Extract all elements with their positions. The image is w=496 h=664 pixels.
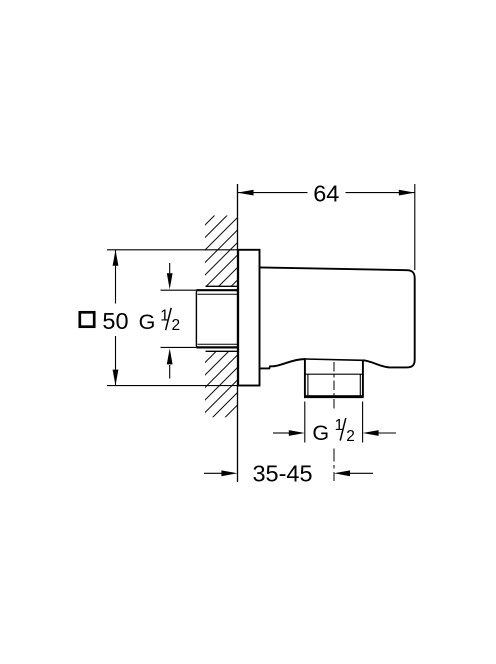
body outline	[260, 267, 415, 396]
dimension 50 extension top	[107, 249, 238, 251]
dimension 50 line top segment	[115, 250, 117, 304]
outlet thread minor line left	[307, 374, 309, 395]
outlet dim extension left	[304, 402, 306, 443]
inlet thread body	[196, 290, 237, 347]
outlet centerline lower	[333, 449, 335, 482]
svg-text:2: 2	[346, 428, 355, 445]
wall hole edge top	[206, 285, 238, 287]
inlet thread dim arrow down	[167, 263, 173, 289]
dimension 64 arrow right	[399, 190, 415, 196]
dimension 50 line bottom segment	[115, 336, 117, 386]
outlet centerline upper	[333, 362, 335, 411]
dimension 50 arrow down	[113, 370, 119, 386]
wall face line	[237, 184, 239, 482]
dimension 50 arrow up	[113, 250, 119, 266]
wall hatching	[193, 170, 260, 462]
outlet thread minor line right	[359, 374, 361, 395]
outlet dim extension right	[362, 402, 364, 443]
dimension 64 line left segment	[238, 192, 308, 194]
label G 1/2 left	[139, 307, 181, 334]
outlet boss mid line	[305, 373, 363, 375]
flange (escutcheon)	[238, 250, 259, 386]
dimension 64 arrow left	[238, 190, 254, 196]
svg-text:G: G	[139, 310, 156, 334]
inlet thread dim arrow up	[167, 348, 173, 378]
label G 1/2 bottom	[312, 417, 355, 445]
square symbol	[80, 312, 94, 326]
svg-text:G: G	[312, 421, 329, 445]
inlet thread minor bottom	[198, 343, 238, 345]
outlet dim arrow right	[363, 430, 396, 436]
outlet end face thick line	[304, 395, 364, 398]
outlet dim arrow left	[273, 430, 305, 436]
inlet thread minor top	[198, 293, 238, 295]
dimension 64 line right segment	[346, 192, 415, 194]
inlet thread major bottom	[196, 346, 237, 348]
dimension 35-45 arrow left	[204, 470, 237, 476]
svg-text:50: 50	[102, 308, 128, 334]
inlet thread dim extension bottom	[161, 346, 197, 348]
inlet thread major top	[196, 289, 237, 291]
dimension 64 extension right	[414, 184, 416, 270]
svg-text:2: 2	[172, 317, 181, 334]
dimension 35-45 arrow right	[334, 470, 373, 476]
svg-text:64: 64	[313, 180, 339, 206]
wall hole edge bottom	[206, 350, 238, 352]
svg-text:35-45: 35-45	[252, 460, 312, 486]
inlet thread dim extension top	[161, 289, 197, 291]
dimension 50 extension bottom	[107, 385, 238, 387]
body underside line across boss top	[305, 359, 363, 360]
